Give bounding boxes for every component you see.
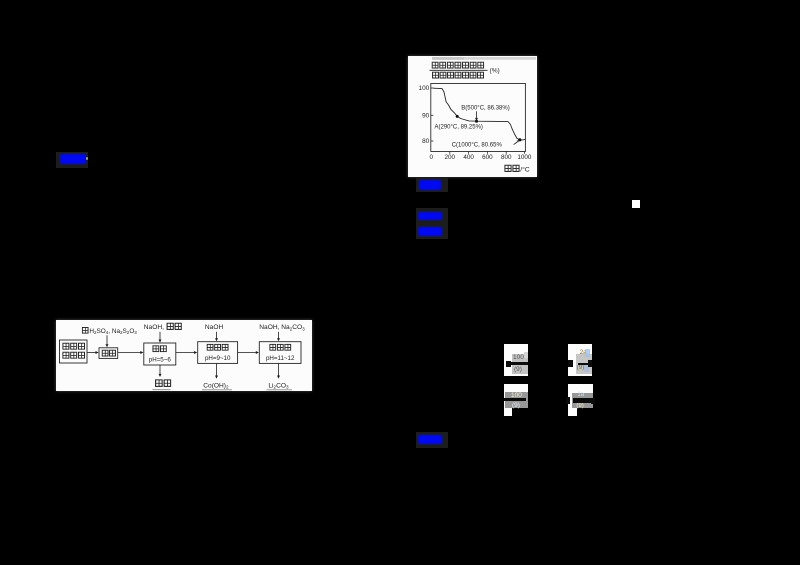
svg-text:/°C: /°C <box>520 166 530 174</box>
svg-text:400: 400 <box>463 154 474 161</box>
svg-text:800: 800 <box>500 154 511 161</box>
svg-text:100: 100 <box>418 85 429 92</box>
svg-text:pH=5~6: pH=5~6 <box>149 356 172 363</box>
svg-text:A(290°C, 89.25%): A(290°C, 89.25%) <box>434 125 482 131</box>
svg-text:Li2CO3: Li2CO3 <box>268 382 289 389</box>
svg-text:pH=11~12: pH=11~12 <box>266 355 295 362</box>
svg-text:pH=9~10: pH=9~10 <box>205 355 231 362</box>
svg-text:NaOH: NaOH <box>205 324 224 331</box>
svg-text:80: 80 <box>422 138 430 145</box>
svg-text:200: 200 <box>444 154 455 161</box>
svg-text:B(500°C, 86.38%): B(500°C, 86.38%) <box>461 105 509 111</box>
svg-text:NaOH,: NaOH, <box>144 324 164 331</box>
svg-text:0: 0 <box>429 154 433 161</box>
svg-text:C(1000°C, 80.65%: C(1000°C, 80.65% <box>451 142 502 148</box>
svg-text:90: 90 <box>422 113 430 120</box>
svg-text:H2SO4, Na2S2O3: H2SO4, Na2S2O3 <box>89 328 137 335</box>
svg-text:NaOH, Na2CO3: NaOH, Na2CO3 <box>259 324 305 331</box>
svg-text:(%): (%) <box>489 68 499 75</box>
svg-text:1000: 1000 <box>517 154 532 161</box>
svg-text:600: 600 <box>482 154 493 161</box>
svg-text:Co(OH)2: Co(OH)2 <box>203 382 229 389</box>
